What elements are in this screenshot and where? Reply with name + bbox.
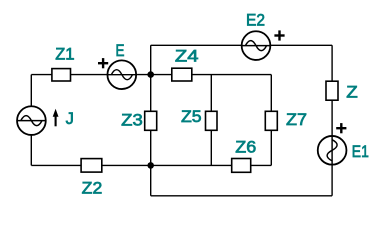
svg-text:J: J: [66, 110, 74, 128]
svg-text:E2: E2: [246, 12, 265, 30]
svg-text:Z5: Z5: [181, 108, 202, 126]
wire bottom rail: [151, 195, 332, 197]
source E1 (AC voltage, vertical, circle with rotated sine): [318, 136, 347, 165]
source E (AC voltage, circle with sine): [107, 60, 136, 89]
source E2 (AC voltage, circle with sine): [242, 31, 271, 60]
wire top rail to E2: [151, 44, 332, 46]
resistor Z5: [206, 111, 218, 130]
svg-text:E: E: [116, 42, 125, 60]
plus sign for E1: [336, 123, 346, 133]
svg-text:Z2: Z2: [82, 180, 103, 198]
label E1: [352, 143, 369, 161]
label Z5: [181, 108, 202, 126]
current arrow for J: [53, 109, 59, 127]
wire Z5 branch column: [210, 75, 212, 166]
label E: [116, 42, 125, 60]
plus sign for E2: [274, 30, 284, 40]
svg-text:Z7: Z7: [286, 111, 307, 129]
label Z1: [55, 46, 74, 64]
resistor Z2: [81, 159, 102, 173]
wire left column through J: [30, 75, 32, 166]
label J: [66, 110, 74, 128]
resistor Z1: [52, 69, 71, 81]
node junction top (x=150.7,y=74.6): [147, 71, 154, 78]
resistor Z7: [265, 111, 277, 130]
label Z3: [121, 111, 143, 129]
resistor Z4: [172, 68, 192, 81]
wire right column: [331, 45, 333, 196]
wire row B (lower horizontal, y=165.4): [31, 164, 271, 166]
wire middle column (x=150.7): [150, 45, 152, 196]
label E2: [246, 12, 265, 30]
label Z6: [235, 139, 256, 157]
resistor Z6: [232, 159, 251, 173]
label Z4: [175, 48, 199, 66]
svg-text:Z: Z: [346, 84, 358, 102]
label Z7: [286, 111, 307, 129]
svg-text:Z3: Z3: [121, 111, 143, 129]
label Z: [346, 84, 358, 102]
svg-text:Z6: Z6: [235, 139, 256, 157]
label Z2: [82, 180, 103, 198]
node junction bottom (x=150.7,y=165.4): [147, 162, 154, 169]
svg-text:Z1: Z1: [55, 46, 74, 64]
wire row A (main horizontal, y=74.6): [31, 74, 271, 76]
svg-text:E1: E1: [352, 143, 369, 161]
plus sign for E: [98, 58, 108, 68]
source J (AC current source circle with sine): [17, 106, 46, 135]
resistor Z3: [145, 111, 157, 130]
resistor Z: [326, 81, 338, 100]
wire Z7 branch column: [270, 75, 272, 166]
svg-text:Z4: Z4: [175, 48, 199, 66]
